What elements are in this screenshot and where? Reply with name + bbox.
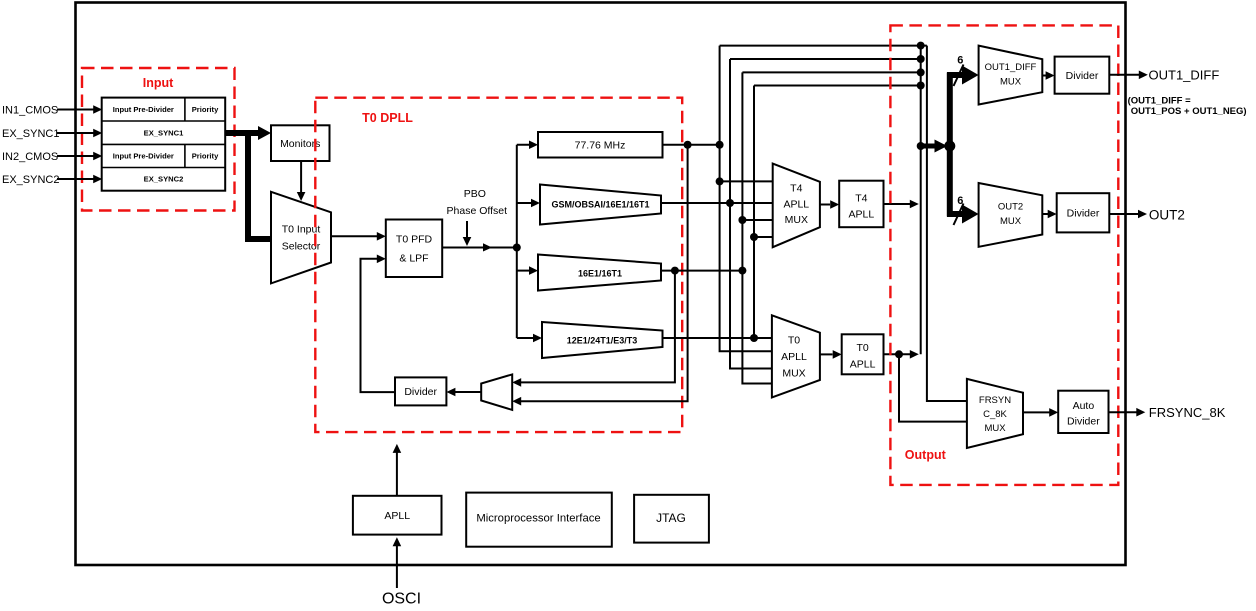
wire T0 output to FRSYNC mux input2 <box>899 354 967 421</box>
wire OSCI into APLL <box>393 537 402 588</box>
svg-text:OUT2: OUT2 <box>1149 208 1185 223</box>
Monitors block <box>271 125 330 161</box>
Auto Divider block <box>1058 391 1108 433</box>
Divider block OUT2 <box>1057 193 1110 232</box>
svg-text:77.76 MHz: 77.76 MHz <box>575 140 626 152</box>
wire to GSM filter <box>517 199 540 208</box>
JTAG block <box>634 495 709 543</box>
Divider block OUT1 <box>1055 57 1110 94</box>
GSM/OBSAI filter trapezoid <box>540 185 661 225</box>
Divider block <box>395 377 446 405</box>
thick wire down to T0 Input Selector <box>245 130 271 239</box>
wire to 16E1 filter <box>517 266 538 275</box>
wire selector to T0 PFD <box>331 232 386 241</box>
node PFD output junction <box>513 244 521 252</box>
T0 APLL MUX <box>772 315 820 397</box>
node 16E1 bus junction <box>738 267 746 275</box>
wire 77.76 MHz output row <box>663 144 720 146</box>
thick bus to OUT2 MUX <box>947 205 979 224</box>
node collector 2 <box>917 55 925 63</box>
svg-text:Divider: Divider <box>1066 70 1099 82</box>
12E1/24T1/E3/T3 filter trapezoid <box>542 322 663 358</box>
wire PFD output to distribution node <box>442 243 517 251</box>
svg-text:APLL: APLL <box>849 209 875 221</box>
svg-text:EX_SYNC2: EX_SYNC2 <box>144 175 184 184</box>
OUT2 MUX <box>979 183 1043 247</box>
node T0 output junction <box>895 350 903 358</box>
svg-text:IN1_CMOS: IN1_CMOS <box>2 105 58 117</box>
bus collector vertical <box>920 46 922 355</box>
wire GSM output row to T4 mux <box>661 202 773 204</box>
wire EX_SYNC2 to table <box>57 175 102 184</box>
svg-text:Divider: Divider <box>1067 416 1100 428</box>
svg-text:OSCI: OSCI <box>382 591 421 607</box>
svg-text:PBO: PBO <box>464 188 486 200</box>
FRSYNC_8K MUX <box>967 379 1023 448</box>
T0 DPLL dashed section box <box>315 98 682 432</box>
svg-text:JTAG: JTAG <box>656 511 686 525</box>
svg-text:Priority: Priority <box>192 105 219 114</box>
node A T4 branch <box>716 177 724 185</box>
svg-text:APLL: APLL <box>781 351 807 363</box>
svg-text:6: 6 <box>957 195 963 207</box>
svg-text:APLL: APLL <box>384 510 410 522</box>
wire 77.76 line down to FRSYNC mux input1 <box>927 46 967 401</box>
thick bus trunk vertical <box>947 73 953 217</box>
wire T0 mux to T0 APLL <box>820 350 842 359</box>
wire T4 mux to T4 APLL <box>820 200 839 209</box>
svg-text:Divider: Divider <box>1067 208 1100 220</box>
svg-text:EX_SYNC1: EX_SYNC1 <box>2 128 59 140</box>
Output dashed section box <box>890 25 1118 485</box>
node 16E1 feedback junction <box>671 267 679 275</box>
node thick trunk junction <box>944 141 955 152</box>
Microprocessor Interface block <box>466 493 612 547</box>
wire 12E1 output row to T0 mux <box>663 337 772 339</box>
wire 16E1 output row <box>661 270 742 272</box>
wire D to T4 mux input4 <box>754 236 773 238</box>
node 77.76 feedback junction <box>684 141 692 149</box>
svg-text:MUX: MUX <box>1000 77 1022 88</box>
svg-text:MUX: MUX <box>785 214 808 226</box>
svg-text:Output: Output <box>905 448 947 462</box>
svg-text:Input Pre-Divider: Input Pre-Divider <box>113 105 174 114</box>
node collector 3 <box>917 68 925 76</box>
thick wire collector to bus trunk <box>921 140 948 153</box>
wire FRSYNC_8K external <box>1109 408 1146 417</box>
bus width slash OUT2 <box>954 204 964 226</box>
svg-text:Phase Offset: Phase Offset <box>447 205 508 217</box>
svg-text:T4: T4 <box>855 193 867 205</box>
svg-text:FRSYNC_8K: FRSYNC_8K <box>1149 405 1226 420</box>
svg-text:EX_SYNC2: EX_SYNC2 <box>2 174 59 186</box>
node 77.76 bus junction <box>716 141 724 149</box>
svg-text:Priority: Priority <box>192 152 219 161</box>
APLL block <box>353 496 442 535</box>
top bus wire 3 <box>742 71 920 73</box>
svg-text:T0 PFD: T0 PFD <box>396 234 433 246</box>
thick wire table to Monitors <box>225 126 271 140</box>
wire APLL up arrow <box>393 444 402 496</box>
node GSM bus junction <box>726 199 734 207</box>
bus vertical C 16E1 <box>742 72 772 383</box>
svg-text:MUX: MUX <box>1000 216 1022 227</box>
wire C to T4 mux input3 <box>742 219 772 221</box>
svg-text:12E1/24T1/E3/T3: 12E1/24T1/E3/T3 <box>567 336 638 346</box>
wire IN1_CMOS to table <box>57 105 102 114</box>
top bus wire 1 <box>720 45 927 47</box>
svg-text:IN2_CMOS: IN2_CMOS <box>2 151 58 163</box>
svg-text:OUT1_DIFF: OUT1_DIFF <box>985 62 1037 73</box>
feedback mux <box>481 374 512 410</box>
PBO arrow <box>463 221 472 246</box>
bus vertical A 77.76 <box>720 46 772 352</box>
node collector thick branch <box>917 142 925 150</box>
svg-text:16E1/16T1: 16E1/16T1 <box>578 268 622 278</box>
bus vertical B GSM <box>730 59 772 369</box>
svg-text:OUT1_DIFF: OUT1_DIFF <box>1149 68 1220 83</box>
T4 APLL block <box>839 181 883 228</box>
wire feedback mux to Divider <box>446 388 481 397</box>
svg-text:(OUT1_DIFF =: (OUT1_DIFF = <box>1128 95 1192 106</box>
wire EX_SYNC1 to table <box>57 129 102 138</box>
feedback wire from 77.76 MHz node <box>512 145 687 406</box>
node 12E1 bus junction <box>750 334 758 342</box>
input table row separators <box>102 98 226 168</box>
node collector 1 <box>917 42 925 50</box>
wire T4 APLL output to bus <box>884 200 919 209</box>
svg-text:OUT2: OUT2 <box>998 202 1023 213</box>
T0 Input Selector mux <box>271 192 331 284</box>
77.76 MHz block <box>538 132 663 158</box>
node D T4 branch <box>750 233 758 241</box>
svg-text:6: 6 <box>957 55 963 67</box>
bus width slash OUT1 <box>954 65 964 87</box>
svg-text:& LPF: & LPF <box>399 253 428 265</box>
svg-text:T0 DPLL: T0 DPLL <box>362 111 413 125</box>
svg-text:FRSYN: FRSYN <box>979 395 1011 406</box>
wire divider feedback to PFD <box>361 255 396 393</box>
svg-text:APLL: APLL <box>783 198 809 210</box>
wire IN2_CMOS to table <box>57 152 102 161</box>
svg-text:MUX: MUX <box>782 367 805 379</box>
svg-text:T4: T4 <box>790 183 802 195</box>
wire OUT1 mux to Divider <box>1042 71 1054 80</box>
svg-text:T0: T0 <box>788 335 800 347</box>
T4 APLL MUX <box>773 164 820 248</box>
wire T0 APLL output to bus <box>884 350 919 359</box>
wire A to T4 mux input1 <box>720 180 773 182</box>
wire FRSYNC mux to Auto Divider <box>1023 408 1058 417</box>
svg-text:Divider: Divider <box>404 386 437 398</box>
distribution vertical wire <box>516 145 518 338</box>
svg-text:OUT1_POS + OUT1_NEG): OUT1_POS + OUT1_NEG) <box>1131 106 1247 117</box>
T0 APLL block <box>842 334 884 374</box>
wire OUT2 external <box>1109 210 1147 219</box>
svg-text:GSM/OBSAI/16E1/16T1: GSM/OBSAI/16E1/16T1 <box>551 200 649 210</box>
svg-text:T0: T0 <box>856 342 868 354</box>
Input dashed section box <box>82 68 235 211</box>
wire Monitors to selector <box>297 161 306 201</box>
input table outer frame <box>102 98 226 191</box>
top bus wire 2 <box>730 58 921 60</box>
svg-text:Input: Input <box>143 76 174 90</box>
svg-text:EX_SYNC1: EX_SYNC1 <box>144 129 184 138</box>
top bus wire 4 <box>754 85 921 87</box>
svg-text:MUX: MUX <box>984 423 1006 434</box>
wire to 12E1 filter <box>517 334 542 343</box>
chip outer border <box>76 3 1126 566</box>
svg-text:APLL: APLL <box>850 358 876 370</box>
svg-text:C_8K: C_8K <box>983 409 1007 420</box>
wire OUT1_DIFF external <box>1109 71 1148 80</box>
thick bus to OUT1_DIFF MUX <box>947 66 979 85</box>
bus vertical D 12E1 <box>753 86 755 339</box>
node C T4 branch <box>738 216 746 224</box>
wire OUT2 mux to Divider <box>1042 210 1056 219</box>
svg-text:Auto: Auto <box>1073 400 1095 412</box>
node collector 4 <box>917 82 925 90</box>
16E1/16T1 filter trapezoid <box>538 255 661 291</box>
wire to 77.76 MHz <box>517 140 538 149</box>
feedback wire from 16E1/16T1 node <box>512 271 675 387</box>
svg-text:Microprocessor Interface: Microprocessor Interface <box>476 513 600 525</box>
OUT1_DIFF MUX <box>979 46 1043 105</box>
T0 PFD &amp; LPF block <box>386 220 442 278</box>
svg-text:Input Pre-Divider: Input Pre-Divider <box>113 152 174 161</box>
